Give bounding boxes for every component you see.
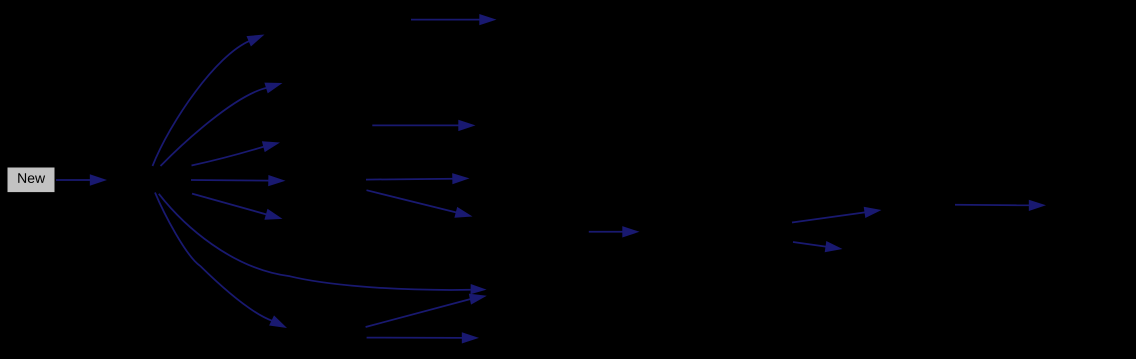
edge S1->T5 shaft [192, 194, 267, 215]
arrowhead U3->V1 [622, 226, 639, 237]
edge W1->X1 shaft [955, 204, 1030, 207]
arrowhead S1->T1 [247, 35, 265, 47]
edge S1->T1 curved shaft [153, 41, 250, 166]
edge T1->U1 shaft [411, 19, 481, 21]
arrowhead V1->W1 [864, 207, 882, 218]
arrowhead S1->T2 [264, 83, 282, 94]
edge S1->T6 curved shaft [155, 193, 273, 322]
edge V1->W1 shaft [792, 212, 866, 222]
edge S1->T4 shaft [191, 179, 270, 182]
edge New->S1 shaft [56, 179, 91, 181]
label New (text as path) [18, 173, 45, 183]
arrowhead S1->T3 [262, 141, 280, 152]
edge S1->T7 long curved shaft [159, 194, 471, 290]
arrowhead S1->T7 [471, 284, 487, 294]
edge S1->T3 shaft [192, 146, 265, 165]
arrowhead S1->T4 [268, 175, 285, 186]
arrowhead W1->X1 [1029, 200, 1046, 211]
arrowhead T3b->U2 [458, 120, 475, 131]
edge T6b->U6 shaft [367, 337, 463, 339]
edge S1->T2 curved shaft [161, 88, 268, 166]
edge T4->U3 shaft [366, 178, 454, 181]
arrowhead S1->T5 [264, 209, 282, 220]
arrowhead T6b->U5 [469, 294, 487, 305]
edge V1->W2 shaft [793, 242, 827, 247]
arrowhead V1->W2 [825, 241, 843, 252]
arrowhead S1->T6 [269, 315, 287, 328]
edge T4->U4 shaft [367, 190, 458, 212]
node New box [7, 167, 55, 193]
arrowhead T4->U4 [454, 207, 472, 218]
edge T3b->U2 shaft [372, 124, 459, 126]
edge T6b->U5 shaft [366, 299, 472, 327]
arrowhead T4->U3 [452, 173, 469, 184]
edge U3->V1 shaft [589, 231, 624, 233]
arrowhead New->S1 [90, 174, 107, 185]
arrowhead T6b->U6 [462, 332, 479, 343]
arrowhead T1->U1 [479, 14, 496, 25]
